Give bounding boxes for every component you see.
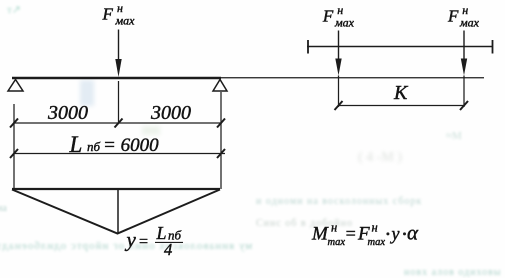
svg-text:мах: мах <box>459 16 480 30</box>
svg-text:3000: 3000 <box>47 102 88 124</box>
svg-text:мах: мах <box>334 16 355 30</box>
svg-text:α: α <box>407 221 419 245</box>
svg-text:н: н <box>372 221 378 235</box>
svg-text:= 6000: = 6000 <box>103 135 159 156</box>
svg-text:max: max <box>328 237 346 248</box>
svg-text:3000: 3000 <box>150 102 191 124</box>
svg-text:F: F <box>322 7 334 26</box>
svg-text:F: F <box>447 7 459 26</box>
svg-text:4: 4 <box>164 240 172 259</box>
svg-text:F: F <box>102 5 114 24</box>
svg-text:max: max <box>368 237 386 248</box>
svg-text:пб: пб <box>87 139 101 154</box>
svg-text:мах: мах <box>115 14 136 28</box>
svg-text:=: = <box>138 234 149 251</box>
svg-text:=: = <box>345 224 357 244</box>
svg-text:y: y <box>390 224 400 244</box>
svg-text:M: M <box>311 224 329 245</box>
svg-text:K: K <box>393 82 409 104</box>
svg-text:L: L <box>69 132 83 157</box>
svg-text:y: y <box>125 228 137 252</box>
svg-text:н: н <box>331 221 337 235</box>
